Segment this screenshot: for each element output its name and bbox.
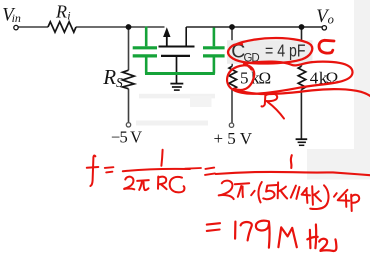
svg-text:−5 V: −5 V — [111, 127, 142, 146]
svg-text:in: in — [12, 11, 21, 25]
svg-text:i: i — [67, 9, 70, 23]
svg-text:R: R — [55, 2, 67, 22]
svg-text:R: R — [102, 65, 116, 89]
svg-text:o: o — [328, 13, 334, 27]
svg-text:= 4 pF: = 4 pF — [265, 41, 306, 61]
svg-text:S: S — [116, 75, 123, 90]
svg-text:5 kΩ: 5 kΩ — [240, 68, 271, 87]
svg-text:+ 5 V: + 5 V — [214, 129, 253, 148]
